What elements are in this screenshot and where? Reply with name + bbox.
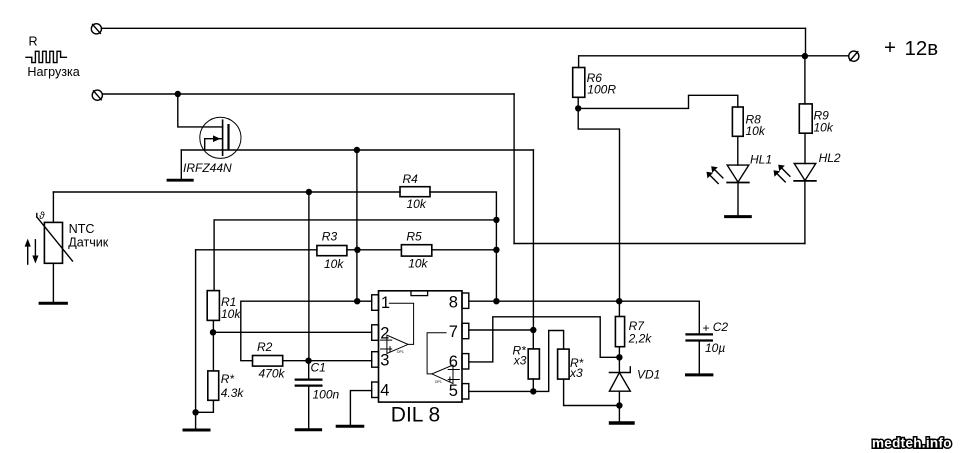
ground (near VT1) (168, 179, 192, 182)
pin 2 box (372, 325, 379, 341)
svg-text:100R: 100R (587, 82, 616, 96)
wire R6 to R8 (578, 95, 738, 108)
ground (below C2) (687, 373, 712, 376)
svg-text:10k: 10k (814, 120, 834, 134)
resistor R* x3 (first) (528, 349, 539, 379)
NTC variability arrows (25, 239, 39, 265)
wire pin8 line y=301.2 (469, 300, 700, 302)
ground (below R*) (184, 429, 209, 432)
node R6 bottom junction (575, 105, 581, 111)
wire X2 to drain junction and right (102, 93, 514, 95)
thermistor RK1 NTC (37, 192, 73, 302)
svg-text:100n: 100n (313, 388, 340, 402)
wire gate vertical down to pin1 node (356, 150, 358, 301)
svg-text:C1: C1 (311, 361, 326, 375)
wire gate rail turn down at x=533.4 (532, 150, 534, 330)
node R4/y220 junction (493, 217, 499, 223)
wire R3 left vertical (195, 250, 197, 429)
svg-text:5: 5 (449, 382, 458, 400)
node R7 bottom junction (616, 354, 622, 360)
svg-text:HL2: HL2 (819, 151, 841, 165)
op-amp A1 (inside DIL, pins 1-2-3) (381, 303, 414, 353)
node NTC/C1 junction (306, 189, 312, 195)
wire R8 to HL1 (737, 136, 739, 165)
wire R3 right (347, 249, 358, 251)
wire R* bottom bend (196, 400, 214, 412)
svg-text:NTC: NTC (69, 222, 95, 236)
svg-text:Нагрузка: Нагрузка (27, 65, 79, 79)
wire R5 leads (357, 249, 401, 251)
resistor R2 (253, 356, 283, 367)
wire R*2 bottom to VD1 node (564, 379, 620, 405)
node R* ground junction (192, 409, 198, 415)
svg-text:10k: 10k (221, 307, 241, 321)
wire y=220 line R1 top (214, 220, 496, 291)
wire R6 top (579, 56, 849, 68)
svg-text:7: 7 (449, 323, 458, 341)
svg-text:Датчик: Датчик (68, 236, 109, 250)
svg-text:R3: R3 (322, 230, 338, 244)
wire X2 net right at y=243.5 to HL2 (514, 243, 805, 245)
node R7 top junction (616, 298, 622, 304)
wire R6 bottom node (577, 97, 579, 108)
svg-text:10k: 10k (324, 257, 344, 271)
resistor R* 4.3k (208, 371, 219, 400)
op-amp A2 (inside DIL, pins 5-6-7) (427, 333, 459, 384)
svg-text:470k: 470k (259, 367, 286, 381)
node R*1 bottom junction (530, 388, 536, 394)
load heater symbol (26, 51, 66, 62)
ground (below VD1) (611, 421, 634, 424)
svg-text:x3: x3 (569, 366, 583, 380)
wire pin5 line (469, 390, 534, 392)
wire R6 to R7 (578, 108, 619, 301)
svg-text:R2: R2 (257, 340, 273, 354)
wire R7 leads (618, 301, 620, 316)
node pin1 junction (354, 298, 360, 304)
resistor R9 (799, 104, 812, 133)
svg-text:VD1: VD1 (637, 367, 660, 381)
pin 5 box (462, 384, 469, 399)
svg-text:2,2k: 2,2k (628, 332, 653, 346)
node C1 junction (305, 358, 311, 364)
transistor VT1 IRFZ44N (200, 117, 241, 158)
resistor R* x3 (second) (558, 349, 570, 379)
terminal X1 (upper left connector) (91, 24, 101, 34)
ground (below NTC) (40, 302, 66, 305)
svg-text:R4: R4 (403, 172, 419, 186)
wire C1 vertical from NTC line (308, 192, 310, 361)
svg-text:OP1: OP1 (435, 380, 442, 384)
wire R*1 leads (532, 330, 534, 349)
svg-text:2: 2 (380, 324, 389, 342)
resistor R1 (207, 291, 219, 321)
capacitor C2 (687, 301, 712, 373)
wire pin5 rail up-over to R*2 (533, 331, 563, 392)
svg-text:12в: 12в (905, 37, 939, 60)
pin 6 box (462, 354, 469, 369)
wire pin6 path (469, 317, 620, 362)
ground (below HL1) (726, 215, 751, 218)
wire NTC node line y=192 (53, 191, 400, 193)
wire VD1 to ground (618, 406, 620, 422)
capacitor C1 (296, 361, 322, 429)
wire R9 to HL2 (804, 133, 806, 163)
svg-text:3: 3 (380, 351, 389, 369)
ground (pin4) (337, 425, 363, 428)
pin 3 box (372, 352, 379, 368)
op-amp U1 DIL8 body (379, 291, 463, 402)
wire X2 net down at x=514 (513, 94, 515, 244)
LED HL2 (774, 164, 816, 182)
resistor R7 (615, 317, 624, 347)
node pin8 junction (493, 298, 499, 304)
svg-text:10k: 10k (407, 197, 427, 211)
svg-text:DIL 8: DIL 8 (391, 403, 440, 426)
svg-text:+: + (884, 36, 896, 59)
terminal +12V connector (849, 51, 859, 61)
pin 7 box (462, 323, 469, 338)
svg-text:R5: R5 (406, 229, 422, 243)
svg-text:4.3k: 4.3k (221, 386, 245, 400)
svg-text:medteh.info: medteh.info (872, 436, 952, 451)
node A (drain junction dot) (175, 91, 181, 97)
svg-text:4: 4 (380, 382, 389, 400)
wire pin2 line (213, 331, 372, 333)
svg-text:1: 1 (381, 294, 390, 312)
wire HL1 to ground (737, 183, 739, 216)
svg-text:8: 8 (449, 294, 458, 312)
resistor R3 (317, 246, 347, 256)
svg-text:HL1: HL1 (750, 152, 772, 166)
wire R2 right to C1 node and pin3 (283, 360, 372, 362)
node R1/R* junction (210, 329, 216, 335)
resistor R6 (573, 68, 585, 98)
node VD1 bottom junction (616, 402, 622, 408)
node R5 right junction (493, 247, 499, 253)
pin 4 box (372, 382, 379, 398)
resistor R4 (400, 187, 430, 197)
svg-text:+: + (703, 321, 710, 335)
resistor R5 (401, 245, 431, 256)
pin 8 box (462, 293, 469, 308)
wire R1 bottom (212, 320, 214, 371)
terminal X2 (lower left connector) (92, 90, 102, 100)
wire X1 to +12V corner (102, 27, 806, 29)
diode VD1 (609, 357, 630, 405)
wire pin4 to ground (350, 391, 371, 426)
svg-text:x3: x3 (513, 354, 527, 368)
wire HL2 down to y=243.5 rail (804, 181, 806, 244)
wire R3 line y=249.8 (196, 249, 317, 251)
wire drain down from junction (178, 94, 223, 127)
svg-text:C2: C2 (713, 320, 729, 334)
svg-text:R: R (29, 35, 38, 49)
node gate rail junction (354, 147, 360, 153)
node +12V junction (802, 53, 808, 59)
resistor R8 (732, 107, 743, 136)
wire gate rail y=150 (181, 149, 533, 151)
svg-text:10k: 10k (746, 124, 766, 138)
svg-text:OP1: OP1 (397, 350, 404, 354)
wire pin1 line and R2 bend (241, 301, 357, 361)
ground (below C1) (296, 428, 320, 431)
wire R4 right to x=496 (430, 192, 496, 301)
wire pin7 line (469, 329, 534, 331)
wire down to MOSFET ground (180, 150, 182, 179)
svg-text:R*: R* (221, 372, 235, 386)
svg-text:ϑ: ϑ (39, 211, 45, 222)
node pin7/R* junction (530, 327, 536, 333)
pin 1 box (372, 295, 379, 311)
wire +12 node to R9 (804, 56, 806, 104)
svg-text:10µ: 10µ (705, 341, 725, 355)
svg-text:10k: 10k (408, 256, 428, 270)
node R3/R5 junction (354, 247, 360, 253)
svg-text:IRFZ44N: IRFZ44N (183, 161, 232, 175)
wire corner down to +12V node (805, 28, 807, 56)
LED HL1 (707, 165, 749, 183)
